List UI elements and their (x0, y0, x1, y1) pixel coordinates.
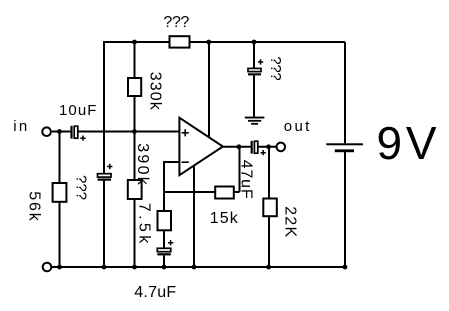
resistor 330k (128, 78, 141, 96)
resistor 56k (53, 183, 67, 202)
svg-text:56k: 56k (25, 191, 42, 222)
battery 9V symbol (326, 143, 363, 152)
node junction top rail / 330k (132, 40, 137, 45)
svg-text:15k: 15k (210, 210, 239, 227)
wire inverting input (164, 162, 180, 192)
svg-text:4.7uF: 4.7uF (134, 284, 176, 301)
wire right decoupling upper (253, 42, 255, 68)
node junction ground rail / 56k (57, 265, 62, 270)
capacitor ??? (right decoupling, polarized) (248, 59, 263, 75)
svg-text:47uF: 47uF (238, 160, 255, 199)
svg-text:10uF: 10uF (59, 102, 97, 119)
wire 7.5k chain upper (163, 192, 165, 248)
wire bias chain 330k/390k (134, 42, 136, 267)
node junction ground rail / 22K (266, 265, 271, 270)
resistor 15k (215, 187, 234, 199)
node junction input / bias divider (132, 129, 137, 134)
svg-text:out: out (284, 118, 310, 135)
resistor ??? (top) (170, 36, 190, 47)
terminal out (277, 143, 286, 152)
svg-text:7.5k: 7.5k (135, 203, 152, 245)
wire battery positive (344, 42, 346, 143)
wire op-amp V- pin (193, 164, 195, 267)
wire battery negative (344, 152, 346, 267)
wire 56k branch (59, 132, 61, 268)
node junction ground rail / op-amp V- (192, 265, 197, 270)
node junction output / feedback (237, 144, 242, 149)
svg-text:390k: 390k (134, 143, 151, 186)
node junction top rail / op-amp V+ (206, 40, 211, 45)
wire op-amp output (223, 146, 251, 148)
svg-text:???: ??? (72, 175, 89, 200)
svg-text:330k: 330k (147, 72, 164, 111)
svg-text:???: ??? (163, 14, 189, 31)
wire output to terminal (258, 146, 276, 148)
node junction ground rail / 390k (132, 265, 137, 270)
wire top rail V+ (104, 41, 345, 43)
wire left supply drop lower (103, 181, 105, 268)
wire right decoupling lower (253, 75, 255, 117)
capacitor 10uF (input, polarized) (70, 126, 85, 141)
resistor 7.5k (158, 211, 172, 230)
wire input right segment to op-amp (78, 131, 179, 133)
capacitor 4.7uF (polarized) (157, 240, 173, 255)
wire left supply drop upper (103, 41, 105, 174)
resistor 390k (128, 180, 142, 199)
node junction ground rail / 4.7uF (162, 265, 167, 270)
wire bottom ground rail (52, 266, 345, 268)
wire feedback horizontal (164, 191, 240, 193)
terminal in (42, 127, 51, 136)
node junction top rail / decoupling (252, 40, 257, 45)
node junction ground rail / battery (343, 265, 348, 270)
wire input left segment (52, 131, 71, 133)
wire 4.7uF to ground rail (163, 256, 165, 268)
node junction input / 56k (57, 129, 62, 134)
wire op-amp V+ pin (208, 42, 210, 138)
node junction ground rail / decoupling (102, 265, 107, 270)
op-amp U1 (179, 118, 223, 176)
svg-text:???: ??? (267, 56, 284, 81)
svg-text:in: in (13, 118, 27, 135)
capacitor 47uF (output, polarized) (251, 141, 266, 156)
svg-text:9V: 9V (377, 117, 437, 169)
svg-text:22K: 22K (282, 206, 299, 237)
capacitor ??? (left decoupling, polarized) (98, 164, 113, 181)
node junction output / 22K (266, 144, 271, 149)
resistor 22K (263, 199, 277, 217)
wire 22K branch (268, 147, 270, 267)
ground (right decoupling) (245, 117, 265, 125)
terminal ground (bottom left) (43, 263, 52, 272)
wire feedback vertical (239, 147, 241, 192)
